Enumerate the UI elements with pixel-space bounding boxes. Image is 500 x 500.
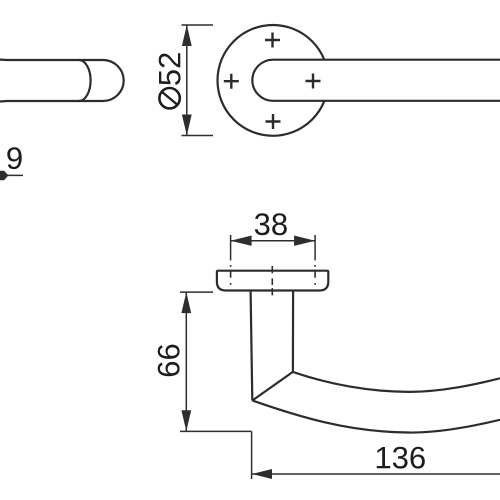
dimension 38 extension line left solid xyxy=(230,235,232,261)
screw centerline left dash-dot xyxy=(230,265,232,285)
dimension 66 extension line bottom xyxy=(180,430,252,432)
text Ø52 xyxy=(159,53,181,108)
corner extension line to 136 xyxy=(251,431,253,479)
grip end cap seam xyxy=(79,60,91,101)
arrow Ø52 top xyxy=(182,25,192,46)
text 136 xyxy=(377,447,425,469)
rose front view circle xyxy=(218,25,329,136)
arrow 66 bottom xyxy=(181,410,191,431)
arrow Ø52 bottom xyxy=(182,115,192,136)
dimension 66 dimension line xyxy=(185,292,187,431)
screw cross left xyxy=(224,74,239,89)
arrow 136 left xyxy=(252,469,272,479)
rose side view outline xyxy=(217,271,328,291)
text 9 xyxy=(7,147,21,169)
arrow 38 right xyxy=(294,236,315,246)
screw cross bottom xyxy=(266,114,281,129)
grip side view (top-left) outline xyxy=(0,60,124,102)
lever bottom curve xyxy=(252,401,500,433)
handle neck right line xyxy=(292,291,294,372)
arrow 66 top xyxy=(181,292,191,313)
text 38 xyxy=(255,213,287,235)
grip front bar over rose xyxy=(252,60,500,101)
dimension 38 dimension line xyxy=(231,240,316,242)
dimension 38 extension line right solid xyxy=(314,235,316,261)
handle neck left line xyxy=(251,291,253,400)
dimension Ø52 dimension line xyxy=(186,25,188,136)
dimension Ø52 extension line top xyxy=(182,24,214,26)
neck-to-lever joint line xyxy=(252,372,293,401)
dimension 9 line xyxy=(4,174,23,176)
arrow 9 (clipped left) xyxy=(0,171,9,181)
center dash line of rose side view xyxy=(271,266,273,295)
screw centerline right dash-dot xyxy=(314,265,316,285)
text 66 xyxy=(158,345,180,377)
arrow 38 left xyxy=(231,236,252,246)
dimension 136 dimension line xyxy=(252,473,500,475)
dimension 66 extension line top xyxy=(180,291,213,293)
screw cross right xyxy=(306,74,321,89)
lever top curve xyxy=(293,372,500,392)
dimension Ø52 extension line bottom xyxy=(182,135,214,137)
screw cross top xyxy=(265,33,280,48)
